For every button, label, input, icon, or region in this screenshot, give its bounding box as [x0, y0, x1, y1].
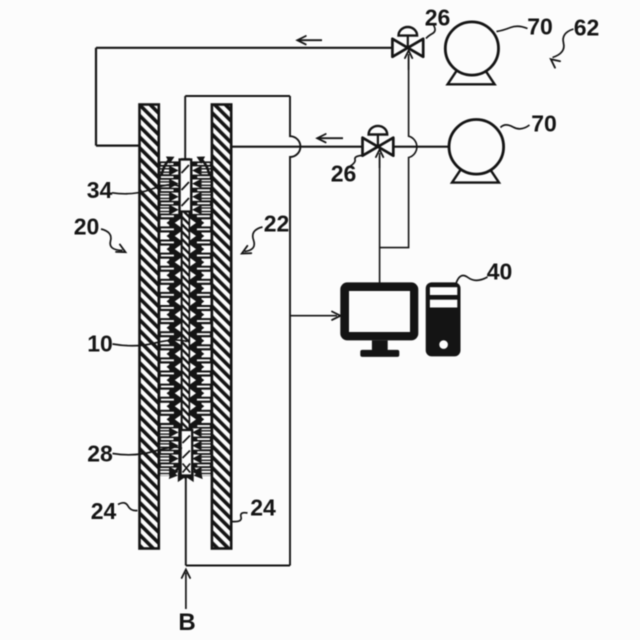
wire: control line from valve 26 (upper) down, hop, to common line: [380, 56, 417, 248]
leader for 24 left: [118, 503, 138, 511]
svg-text:10: 10: [87, 331, 113, 357]
svg-text:28: 28: [87, 441, 113, 467]
wire: left header into outer plate 20: [96, 145, 140, 147]
valve 26 upper (control valve with diaphragm actuator): [392, 27, 423, 57]
leader for 24 right: [232, 513, 248, 522]
wire: inner loop left vertical down to sensor 34: [184, 96, 186, 160]
svg-text:26: 26: [331, 161, 357, 187]
pump 70 lower: [449, 120, 504, 183]
svg-text:22: 22: [264, 211, 290, 237]
svg-text:40: 40: [487, 259, 513, 285]
leader squiggle for 70 upper: [497, 26, 528, 31]
plate 22/24 right hatched bar: [212, 105, 231, 549]
flow arrow on lower pipe: [318, 137, 343, 139]
svg-text:24: 24: [250, 495, 276, 521]
svg-text:34: 34: [87, 177, 113, 203]
leader squiggle for 26 upper: [426, 25, 435, 39]
svg-text:26: 26: [425, 5, 451, 31]
membrane strip 10 (hatched): [182, 159, 190, 480]
flow arrow field left of membrane 10: [159, 161, 182, 476]
svg-text:70: 70: [531, 111, 557, 137]
wire: pipe from right plate to valve 26 (lower): [231, 146, 363, 148]
leader squiggle for 26 lower: [348, 156, 362, 168]
computer 40: monitor: [340, 282, 418, 357]
wire: channel outlet down to loop bottom: [185, 477, 187, 566]
leader for 28: [113, 447, 183, 455]
svg-text:70: 70: [527, 14, 553, 40]
label 62 with curved arrow: [553, 29, 574, 58]
wire: loop bottom horizontal: [186, 565, 290, 567]
pump 70 upper: [445, 22, 498, 84]
wire: control line from valve 26 (lower) down into computer 40: [379, 156, 381, 283]
fan-out arrows at channel outlet left: [169, 465, 186, 482]
wire: long right vertical of loop with hop over pipe: [290, 96, 300, 566]
up arrow into upper valve: [408, 54, 410, 70]
valve 26 lower (control valve with diaphragm actuator): [363, 126, 394, 156]
svg-text:20: 20: [74, 214, 100, 240]
wire: inner loop top horizontal: [185, 95, 290, 97]
svg-text:24: 24: [91, 498, 117, 524]
wire: signal branch to computer 40 with arrowhead: [290, 315, 337, 317]
leader for 34: [112, 185, 180, 194]
squiggle arrow for 22: [245, 227, 263, 252]
inlet arrow B: [185, 573, 187, 610]
computer 40: tower: [426, 282, 461, 356]
curved inlet arrows above sensor 34: [162, 157, 210, 176]
flow arrow field right of membrane 10: [189, 161, 212, 476]
sensor 34 (upper probe): [180, 160, 192, 212]
squiggle arrow for 20: [101, 229, 123, 251]
fan-out arrows at channel outlet right: [186, 465, 203, 482]
leader for 40: [456, 276, 488, 284]
sensor 28 (lower probe): [181, 430, 193, 476]
flow arrow on top pipe: [298, 39, 322, 41]
leader for 10: [113, 340, 188, 346]
svg-text:62: 62: [574, 15, 600, 41]
svg-text:B: B: [178, 609, 195, 636]
wire: top supply pipe from pump/valve 26 to left header: [96, 47, 392, 49]
leader squiggle for 70 lower: [501, 125, 530, 129]
wire: valve 26 (lower) to pump 70 (lower): [393, 146, 449, 148]
plate 20/24 left hatched bar: [140, 105, 159, 549]
up arrow into lower valve: [379, 153, 381, 168]
wire: left header vertical: [95, 48, 97, 146]
